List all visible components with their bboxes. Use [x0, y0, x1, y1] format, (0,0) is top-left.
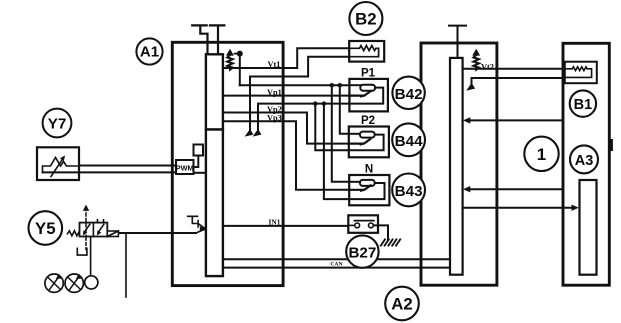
- connector strip X1 (upper) in A1: [206, 54, 223, 129]
- P1 return loop: [349, 88, 383, 104]
- B27 contact right: [369, 223, 374, 228]
- Y5 solenoid box: [107, 231, 118, 237]
- connector tick on right edge: [610, 139, 613, 151]
- label circle B44: [392, 123, 425, 156]
- label circle A2: [385, 287, 419, 321]
- P2 supply lead: [349, 133, 360, 135]
- temp sensor B2 box: [349, 41, 384, 62]
- vertical of ground bus: [257, 104, 259, 131]
- Y5 valve body: [80, 223, 108, 237]
- wire Vp2 to P2 wiper: [223, 113, 349, 144]
- position sensor P2 box: [349, 127, 389, 158]
- wire Vp3 to N wiper: [223, 121, 349, 190]
- output transistor in A1: [188, 216, 205, 233]
- terminal T-bar 2 (supply): [210, 25, 225, 54]
- wire sensor supply bus to P1: [240, 85, 361, 88]
- chassis ground hatching: [381, 239, 400, 245]
- lift connector rect: [580, 180, 597, 275]
- Y5 pilot dashed through body: [85, 224, 87, 237]
- ground arrow 1 (B2 return): [245, 129, 254, 137]
- wire gnd drop to P2: [315, 104, 349, 151]
- B27 wire to chassis ground: [373, 225, 388, 239]
- wire A2 to lift connector (arrow right): [463, 207, 573, 209]
- label circle B42: [392, 77, 424, 109]
- wire valve branch down: [125, 234, 127, 297]
- wire Vp1 to P1 wiper: [223, 95, 350, 97]
- setpoint device Y7 box: [37, 147, 79, 180]
- B1 resistor element: [565, 67, 592, 78]
- terminal T-bar 1 (supply): [192, 25, 207, 54]
- resistor in B2: [349, 46, 378, 57]
- wire B1 return with chassis arrow: [472, 78, 593, 85]
- svg-text:N: N: [365, 164, 373, 176]
- B27 contact left: [355, 223, 360, 228]
- valve controller A2 box: [421, 43, 497, 285]
- wire supply drop to P2: [340, 85, 360, 134]
- label circle A1: [136, 38, 162, 64]
- wire B1 column to A2 (arrow left) lower: [469, 188, 564, 190]
- wire PWM out to strip: [194, 172, 206, 174]
- svg-text:Vp3: Vp3: [267, 114, 282, 123]
- wire IN1 to B27: [223, 225, 348, 227]
- junction dot supply->P2: [330, 83, 334, 87]
- label circle Y5: [29, 211, 63, 245]
- svg-text:B27: B27: [348, 245, 376, 262]
- wire Vt2: A2 strip to B1: [463, 68, 569, 70]
- wire Y7 to PWM (pair): [43, 166, 177, 173]
- Y7 wiper arrow: [51, 159, 63, 177]
- svg-text:CAN: CAN: [331, 261, 343, 267]
- P1 wiper: [349, 91, 370, 96]
- svg-text:Vt2: Vt2: [481, 62, 494, 71]
- svg-text:A1: A1: [140, 44, 159, 61]
- wire logic square to PWM: [194, 156, 199, 168]
- ECU A1 box: [172, 42, 283, 285]
- N pot body: [360, 180, 375, 186]
- N wiper: [349, 185, 370, 190]
- zener/suppressor Vt2 with up arrow: [474, 55, 479, 70]
- svg-text:B42: B42: [395, 86, 423, 103]
- Y5 arrows in cells: [84, 224, 104, 232]
- position sensor P1 box: [349, 79, 388, 112]
- logic block square above PWM: [194, 145, 204, 156]
- svg-text:Y5: Y5: [35, 219, 56, 238]
- chassis arrow in A2: [466, 83, 475, 91]
- N supply lead: [349, 181, 360, 183]
- label circle Y7: [43, 109, 72, 138]
- zener/suppressor with up arrow in A1: [227, 55, 232, 70]
- label circle B43: [392, 174, 425, 207]
- pump circle 3: [85, 276, 98, 289]
- wire CAN low: [223, 267, 450, 269]
- right module box (B1/A3): [563, 43, 609, 285]
- position sensor N box: [349, 175, 389, 205]
- svg-text:B2: B2: [355, 10, 376, 29]
- N return loop: [349, 183, 384, 199]
- wire supply drop to N: [332, 85, 360, 182]
- svg-text:B1: B1: [574, 97, 593, 113]
- label circle B27: [346, 235, 378, 267]
- svg-text:PWM: PWM: [176, 164, 194, 173]
- P1 supply lead: [349, 84, 360, 86]
- switch B27 box: [348, 215, 378, 233]
- svg-text:Vp2: Vp2: [267, 105, 282, 114]
- Y5 drain box: [77, 248, 87, 255]
- pump circle 2: [65, 274, 83, 292]
- PWM driver box in A1: [176, 160, 194, 174]
- P1 pot body: [360, 85, 375, 91]
- Y7 potentiometer element: [43, 158, 80, 173]
- junction dot supply->N: [338, 83, 342, 87]
- svg-text:Y7: Y7: [48, 115, 67, 132]
- junction dot gnd->N: [322, 101, 326, 105]
- Y5 pilot dashed up with arrow: [85, 209, 87, 222]
- wire Vt1: strip to B2: [223, 48, 349, 68]
- supply pin with dot top in A1: [239, 55, 241, 85]
- connector strip X1 (lower) in A1: [206, 130, 223, 277]
- P2 return loop: [349, 135, 384, 151]
- svg-text:Vt1: Vt1: [268, 60, 281, 69]
- B27 lead inside left: [348, 224, 354, 226]
- label circle A3: [570, 145, 598, 173]
- wire Y5 to transistor: [118, 232, 196, 234]
- wire valve to tank/pump: [90, 237, 92, 276]
- svg-text:B44: B44: [395, 133, 423, 150]
- svg-text:B43: B43: [395, 183, 423, 200]
- svg-text:IN1: IN1: [269, 217, 281, 226]
- wire B1 column to A2 (arrow left) upper: [469, 119, 564, 121]
- B27 contact bar: [355, 220, 374, 222]
- svg-text:1: 1: [537, 145, 546, 164]
- pump circle 1: [45, 274, 63, 292]
- label circle B1: [570, 90, 596, 116]
- connector strip in A2: [450, 58, 463, 275]
- wire CAN high: [223, 258, 450, 260]
- P2 wiper: [349, 139, 370, 144]
- svg-text:P2: P2: [361, 115, 375, 127]
- svg-text:A2: A2: [391, 295, 412, 314]
- wire sensor ground bus to P1: [258, 103, 349, 105]
- transistor arrow into strip: [200, 226, 206, 231]
- Y5 pilot dashed down: [85, 238, 87, 250]
- Y5 spring: [67, 231, 79, 236]
- solenoid valve Y5: [67, 205, 126, 297]
- terminal T-bar A2: [449, 26, 466, 58]
- P2 pot body: [360, 132, 375, 138]
- svg-text:P1: P1: [361, 68, 376, 80]
- ground arrow 2 (sensor ground): [253, 129, 262, 137]
- junction dot gnd->P2: [313, 101, 317, 105]
- wire gnd drop to N: [324, 104, 349, 200]
- B1 setpoint sensor inner box: [565, 62, 597, 83]
- wire B2 return to ground: [250, 57, 349, 131]
- label circle B2: [349, 2, 382, 35]
- label circle 1: [524, 137, 558, 171]
- svg-text:Vp1: Vp1: [267, 88, 282, 97]
- svg-text:A3: A3: [575, 153, 594, 169]
- Y5 ports on top: [98, 220, 104, 223]
